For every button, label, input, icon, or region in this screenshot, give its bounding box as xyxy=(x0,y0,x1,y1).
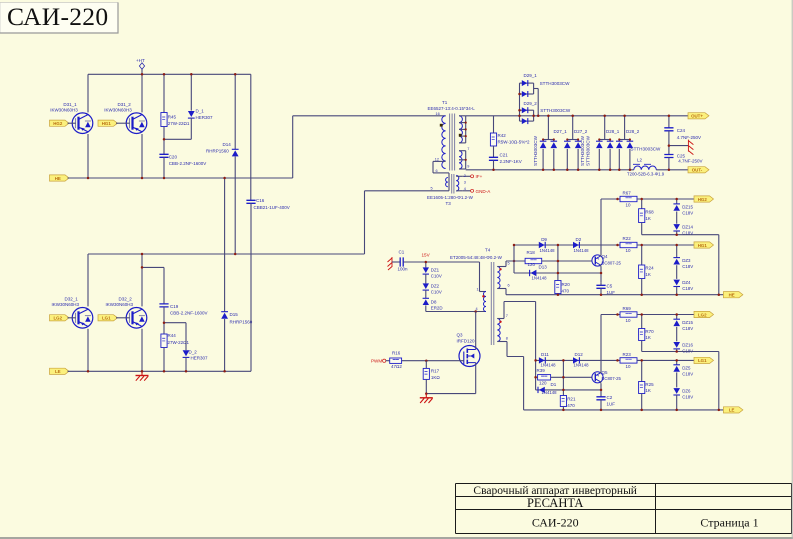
svg-text:CBB-2.2NF-1600V: CBB-2.2NF-1600V xyxy=(169,161,207,166)
svg-text:C18V: C18V xyxy=(682,211,693,216)
svg-text:R68: R68 xyxy=(645,210,654,215)
svg-text:2.2NF-1KV: 2.2NF-1KV xyxy=(500,159,522,164)
svg-text:R67: R67 xyxy=(623,191,632,196)
svg-text:D_1: D_1 xyxy=(196,109,205,114)
svg-text:DZ16: DZ16 xyxy=(682,342,693,347)
svg-text:12: 12 xyxy=(435,158,439,162)
svg-text:C10V: C10V xyxy=(431,274,442,279)
svg-text:САИ-220: САИ-220 xyxy=(532,515,579,529)
svg-text:C18V: C18V xyxy=(682,264,693,269)
svg-text:16: 16 xyxy=(436,112,440,116)
svg-text:D1: D1 xyxy=(551,382,557,387)
svg-text:R42: R42 xyxy=(498,133,507,138)
svg-text:6: 6 xyxy=(508,284,510,288)
svg-text:8: 8 xyxy=(506,337,508,341)
svg-text:LE: LE xyxy=(729,408,735,413)
svg-text:1K: 1K xyxy=(645,216,651,221)
svg-text:C5: C5 xyxy=(607,284,613,289)
svg-text:10: 10 xyxy=(626,364,632,369)
svg-text:4.7NF-250V: 4.7NF-250V xyxy=(677,135,701,140)
svg-text:HER307: HER307 xyxy=(196,115,214,120)
svg-text:R21: R21 xyxy=(567,396,576,401)
svg-text:R25: R25 xyxy=(645,382,654,387)
svg-text:D14: D14 xyxy=(223,142,232,147)
svg-text:1K: 1K xyxy=(645,272,651,277)
svg-text:10: 10 xyxy=(626,203,632,208)
svg-text:1N4148: 1N4148 xyxy=(532,275,548,280)
svg-text:1N4148: 1N4148 xyxy=(541,362,557,367)
svg-text:C18V: C18V xyxy=(682,348,693,353)
svg-text:1UF: 1UF xyxy=(607,401,616,406)
svg-text:DZ14: DZ14 xyxy=(682,225,693,230)
svg-text:R45: R45 xyxy=(168,115,177,120)
svg-text:CBB-2.2NF-1600V: CBB-2.2NF-1600V xyxy=(170,310,208,315)
svg-text:CBB21-1UF-400V: CBB21-1UF-400V xyxy=(254,205,290,210)
svg-text:R22: R22 xyxy=(623,236,632,241)
svg-text:DZ1: DZ1 xyxy=(431,268,440,273)
svg-text:C18V: C18V xyxy=(682,372,693,377)
svg-text:LG1: LG1 xyxy=(698,358,707,363)
svg-text:1N4148: 1N4148 xyxy=(574,248,590,253)
svg-text:2: 2 xyxy=(464,174,466,178)
svg-text:C18V: C18V xyxy=(682,394,693,399)
svg-text:САИ-220: САИ-220 xyxy=(7,2,108,31)
svg-text:IKW30N60H3: IKW30N60H3 xyxy=(106,302,134,307)
svg-text:EE6527-13:4-0.15*34-L: EE6527-13:4-0.15*34-L xyxy=(428,106,476,111)
svg-text:STTH3003CW: STTH3003CW xyxy=(540,81,571,86)
svg-text:D2: D2 xyxy=(576,237,582,242)
svg-text:3: 3 xyxy=(464,181,466,185)
svg-text:R24: R24 xyxy=(645,266,654,271)
svg-text:DZ2: DZ2 xyxy=(431,284,440,289)
svg-text:7: 7 xyxy=(506,314,508,318)
svg-text:HE: HE xyxy=(55,176,61,181)
svg-text:IKW30N60H3: IKW30N60H3 xyxy=(104,107,132,112)
svg-text:LG2: LG2 xyxy=(698,312,707,317)
svg-text:Страница 1: Страница 1 xyxy=(700,515,758,529)
svg-text:5: 5 xyxy=(508,262,510,266)
svg-text:Q5: Q5 xyxy=(602,370,609,375)
svg-text:IF+: IF+ xyxy=(476,174,483,179)
svg-text:D32_2: D32_2 xyxy=(119,297,133,302)
svg-text:C2: C2 xyxy=(607,395,613,400)
svg-text:Q3: Q3 xyxy=(457,333,464,338)
svg-text:ET2005-54:48:48-Φ0.2-W: ET2005-54:48:48-Φ0.2-W xyxy=(450,255,503,260)
svg-text:1N4148: 1N4148 xyxy=(574,362,590,367)
svg-text:47Ω2: 47Ω2 xyxy=(391,364,402,369)
svg-text:STTH3003CW: STTH3003CW xyxy=(586,135,591,166)
svg-text:STTH3003CW: STTH3003CW xyxy=(631,147,662,152)
svg-text:OUT+: OUT+ xyxy=(691,114,703,119)
svg-text:L2: L2 xyxy=(637,158,643,163)
svg-text:4: 4 xyxy=(476,307,478,311)
svg-text:T200-52B-6.3-Φ1.9: T200-52B-6.3-Φ1.9 xyxy=(627,172,665,177)
svg-text:15V: 15V xyxy=(422,252,431,257)
svg-text:4.7NF-250V: 4.7NF-250V xyxy=(678,159,702,164)
svg-text:9: 9 xyxy=(467,165,469,169)
svg-text:РЕСАНТА: РЕСАНТА xyxy=(527,496,583,510)
svg-text:C18V: C18V xyxy=(682,326,693,331)
svg-text:D27_2: D27_2 xyxy=(574,129,588,134)
svg-text:R5W-10Ω-5%*2: R5W-10Ω-5%*2 xyxy=(498,139,531,144)
svg-text:470: 470 xyxy=(567,403,575,408)
svg-text:R17: R17 xyxy=(431,368,440,373)
svg-text:T1: T1 xyxy=(442,100,448,105)
svg-text:DZ5: DZ5 xyxy=(682,366,691,371)
svg-text:IRFD120: IRFD120 xyxy=(457,338,476,343)
svg-text:HE: HE xyxy=(729,293,735,298)
svg-text:T3: T3 xyxy=(446,201,452,206)
svg-text:C19: C19 xyxy=(170,304,179,309)
svg-text:DZ4: DZ4 xyxy=(682,280,691,285)
svg-text:Q4: Q4 xyxy=(602,254,609,259)
svg-text:LE: LE xyxy=(55,369,61,374)
svg-text:LG1: LG1 xyxy=(102,316,111,321)
svg-text:R16: R16 xyxy=(392,351,401,356)
svg-text:HG1: HG1 xyxy=(102,121,112,126)
svg-text:10: 10 xyxy=(626,318,632,323)
svg-text:C24: C24 xyxy=(677,128,686,133)
svg-text:D9: D9 xyxy=(541,237,547,242)
svg-text:HG1: HG1 xyxy=(698,243,708,248)
svg-text:6: 6 xyxy=(436,169,438,173)
svg-text:5: 5 xyxy=(431,187,433,191)
svg-text:1K: 1K xyxy=(645,388,651,393)
svg-text:C16: C16 xyxy=(256,198,265,203)
svg-text:R69: R69 xyxy=(623,306,632,311)
svg-text:HER307: HER307 xyxy=(191,356,209,361)
svg-text:C1: C1 xyxy=(399,250,405,255)
svg-text:D15: D15 xyxy=(230,312,239,317)
svg-text:RHRP1560: RHRP1560 xyxy=(206,149,229,154)
svg-text:470: 470 xyxy=(562,289,570,294)
svg-text:7: 7 xyxy=(467,147,469,151)
svg-text:C18V: C18V xyxy=(682,286,693,291)
svg-text:D28_1: D28_1 xyxy=(606,129,620,134)
svg-text:DZ3: DZ3 xyxy=(682,258,691,263)
svg-text:BC807-25: BC807-25 xyxy=(602,376,622,381)
svg-text:STTH3003CW: STTH3003CW xyxy=(533,135,538,166)
svg-text:C20: C20 xyxy=(169,154,178,159)
svg-text:R20: R20 xyxy=(562,282,571,287)
svg-text:1: 1 xyxy=(477,287,479,291)
svg-text:D_2: D_2 xyxy=(189,350,198,355)
svg-text:HG2: HG2 xyxy=(53,121,63,126)
svg-text:C10V: C10V xyxy=(431,290,442,295)
svg-text:RHRP1560: RHRP1560 xyxy=(230,319,253,324)
svg-text:ER2D: ER2D xyxy=(431,306,443,311)
svg-text:D32_1: D32_1 xyxy=(65,297,79,302)
svg-text:R39: R39 xyxy=(537,368,546,373)
svg-text:D12: D12 xyxy=(575,352,584,357)
svg-text:10: 10 xyxy=(626,248,632,253)
svg-text:BC807-25: BC807-25 xyxy=(602,260,622,265)
svg-text:PWM: PWM xyxy=(371,359,382,364)
svg-text:DZ15: DZ15 xyxy=(682,320,693,325)
svg-text:D8: D8 xyxy=(431,300,437,305)
svg-text:T4: T4 xyxy=(485,248,491,253)
svg-text:LG2: LG2 xyxy=(53,316,62,321)
svg-text:27W-22Ω1: 27W-22Ω1 xyxy=(168,121,190,126)
svg-text:1N4148: 1N4148 xyxy=(540,248,556,253)
svg-text:R44: R44 xyxy=(168,333,177,338)
svg-text:EE1605-1:280-Φ1.2-W: EE1605-1:280-Φ1.2-W xyxy=(427,195,474,200)
svg-text:DZ6: DZ6 xyxy=(682,388,691,393)
svg-text:IKW30N60H3: IKW30N60H3 xyxy=(52,302,80,307)
svg-text:DZ15: DZ15 xyxy=(682,205,693,210)
svg-text:C21: C21 xyxy=(500,153,509,158)
svg-text:D28_2: D28_2 xyxy=(626,129,640,134)
svg-text:HG2: HG2 xyxy=(698,197,708,202)
svg-text:R23: R23 xyxy=(623,352,632,357)
svg-text:1UF: 1UF xyxy=(607,290,616,295)
svg-text:D13: D13 xyxy=(539,264,548,269)
svg-text:R18: R18 xyxy=(527,250,536,255)
svg-text:D29_1: D29_1 xyxy=(524,73,538,78)
svg-text:STTH3003CW: STTH3003CW xyxy=(580,135,585,166)
svg-text:1KΩ: 1KΩ xyxy=(431,375,441,380)
svg-text:+HT: +HT xyxy=(136,58,145,63)
svg-text:R70: R70 xyxy=(645,329,654,334)
svg-text:1K: 1K xyxy=(645,335,651,340)
svg-text:D29_2: D29_2 xyxy=(524,101,538,106)
svg-text:D27_1: D27_1 xyxy=(554,129,568,134)
svg-text:OUT-: OUT- xyxy=(692,168,703,173)
svg-text:GND-A: GND-A xyxy=(476,189,492,194)
svg-text:120: 120 xyxy=(539,381,547,386)
svg-text:STTH3003CW: STTH3003CW xyxy=(540,108,571,113)
svg-text:120: 120 xyxy=(528,262,536,267)
svg-text:IKW30N60H3: IKW30N60H3 xyxy=(50,107,78,112)
svg-text:100n: 100n xyxy=(398,267,409,272)
svg-text:4: 4 xyxy=(464,187,466,191)
svg-text:D11: D11 xyxy=(541,352,549,357)
svg-text:1N4148: 1N4148 xyxy=(542,390,558,395)
